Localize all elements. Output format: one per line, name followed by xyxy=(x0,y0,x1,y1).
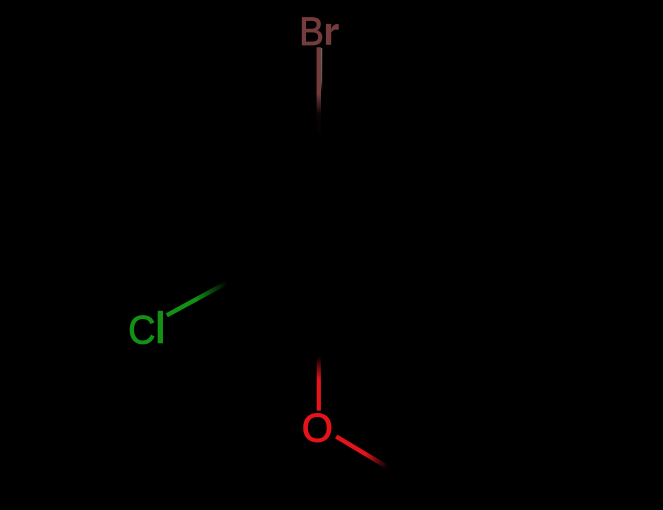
wire C2-C3 ring edge xyxy=(228,192,233,281)
wire C1-C2 ring edge xyxy=(231,281,320,345)
svg-text:C: C xyxy=(128,308,155,352)
bond O-CH3 methyl (red fading to black) xyxy=(336,437,402,477)
atom label Cl : letter C xyxy=(128,308,155,352)
bond C1-O (red fading to black) xyxy=(317,345,321,411)
wire C5-C6 ring edge xyxy=(406,192,411,294)
subpixel AA gray edge on Br bond xyxy=(321,48,323,92)
bond C2-Cl (green fading to black) xyxy=(167,281,231,316)
atom label Br : letter B xyxy=(299,10,324,55)
atom label Br : letter r (custom glyph) xyxy=(326,24,339,45)
wire C6-C1 ring edge xyxy=(320,294,409,346)
svg-text:O: O xyxy=(302,407,333,451)
wire C3-C4 ring edge xyxy=(230,140,319,192)
wire C4-C5 ring edge xyxy=(319,140,408,192)
benzene ring (carbon skeleton, black on black) xyxy=(230,140,408,345)
atom label Cl : letter l drawn as bar xyxy=(158,311,163,344)
bond C4-Br (maroon fading to black) xyxy=(317,47,321,140)
svg-text:B: B xyxy=(299,10,324,55)
wire inner double bond lines xyxy=(322,157,394,199)
